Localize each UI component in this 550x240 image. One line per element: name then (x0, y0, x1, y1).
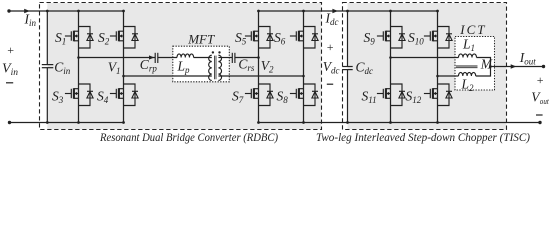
wire S9/S11 mid to L1 (391, 57, 459, 59)
transistor S5 (MOSFET with body diode) (245, 27, 273, 49)
transistor S9 (MOSFET with body diode) (377, 27, 405, 49)
polarity dot primary (212, 51, 214, 53)
transistor S3 (MOSFET with body diode) (65, 84, 93, 106)
junction S9/S11 mid (389, 56, 392, 59)
transistor S1 (MOSFET with body diode) (65, 27, 93, 49)
junction S11 leg bottom rail (389, 121, 392, 124)
junction node V1 (77, 56, 80, 59)
transformer MFT primary winding (209, 55, 212, 80)
junction S1 leg top rail (77, 10, 80, 13)
TISC shaded region (348, 3, 507, 130)
wire vertical leg S5/S7 (258, 11, 260, 123)
wire vertical leg S2/S4 (123, 11, 125, 123)
capacitor Crs (232, 53, 235, 63)
svg-text:M: M (480, 56, 493, 71)
transistor S7 (MOSFET with body diode) (245, 84, 273, 106)
terminal dot output top (542, 65, 545, 68)
transformer MFT secondary winding (218, 55, 221, 80)
junction S8 leg bottom rail (302, 121, 305, 124)
current arrow Iout (511, 64, 517, 69)
RDBC dashed boundary box (40, 3, 322, 130)
wire primary return (S2/S4 mid to transformer) (124, 75, 212, 77)
junction S9 leg top rail (389, 10, 392, 13)
current arrow on primary wire (149, 55, 154, 59)
junction Cin top (46, 10, 49, 13)
wire vertical leg S10/S12 (437, 11, 439, 123)
svg-text:+: + (6, 43, 14, 57)
ICT coupling core bars (456, 66, 478, 68)
svg-text:Two-leg Interleaved Step-down: Two-leg Interleaved Step-down Chopper (T… (316, 132, 530, 144)
capacitor Crp (155, 53, 158, 63)
junction Cdc bottom (346, 121, 349, 124)
transformer core (214, 56, 216, 80)
inductor L2 (459, 72, 476, 76)
wire L1 to output junction (477, 58, 491, 67)
junction S4 leg bottom rail (122, 121, 125, 124)
wire node V1 to Crp (79, 57, 156, 59)
RDBC shaded region (47, 3, 321, 130)
junction S10 leg top rail (436, 10, 439, 13)
junction S2 leg top rail (122, 10, 125, 13)
junction S2/S4 mid (122, 75, 125, 78)
wire S10/S12 mid to L2 (438, 75, 459, 77)
transistor S6 (MOSFET with body diode) (290, 27, 318, 49)
svg-text:out: out (540, 97, 550, 106)
transistor S10 (MOSFET with body diode) (424, 27, 452, 49)
svg-text:+: + (536, 73, 544, 87)
terminal dot input bottom (8, 121, 11, 124)
junction S6/S8 mid (302, 75, 305, 78)
wire output (491, 66, 544, 68)
wire top rail (DC link side) (259, 10, 438, 12)
transistor S4 (MOSFET with body diode) (110, 84, 138, 106)
wire secondary return (transformer to S6/S8 mid) (218, 75, 303, 77)
svg-text:+: + (326, 40, 334, 54)
wire vertical leg S6/S8 (303, 11, 305, 123)
junction node V2 (257, 56, 260, 59)
transistor S8 (MOSFET with body diode) (290, 84, 318, 106)
wire bottom rail (input side) (10, 122, 124, 124)
capacitor Cin (42, 11, 54, 123)
transistor S11 (MOSFET with body diode) (377, 84, 405, 106)
terminal dot input top (7, 9, 10, 12)
current arrow Iin (24, 9, 30, 14)
label - (Vin) (6, 82, 13, 84)
junction Cin bottom (46, 121, 49, 124)
inductor Lp (177, 54, 194, 58)
label - (Vdc) (327, 83, 333, 85)
polarity dot secondary (218, 51, 220, 53)
svg-text:MFT: MFT (187, 32, 215, 47)
transistor S2 (MOSFET with body diode) (110, 27, 138, 49)
transistor S12 (MOSFET with body diode) (424, 84, 452, 106)
MFT dotted box (173, 46, 230, 82)
wire bottom rail (DC link / output side) (259, 122, 541, 124)
wire transformer to Crs (218, 57, 232, 59)
wire vertical leg S9/S11 (390, 11, 392, 123)
label - (Vout) (536, 114, 543, 116)
junction S7 leg bottom rail (257, 121, 260, 124)
wire vertical leg S1/S3 (78, 11, 80, 123)
current arrow Idc (332, 9, 338, 14)
wire top rail (input side) (9, 10, 124, 12)
inductor L1 (459, 54, 477, 58)
capacitor Cdc (342, 11, 352, 123)
junction S10/S12 mid (436, 75, 439, 78)
wire Lp to transformer (194, 57, 212, 59)
junction S3 leg bottom rail (77, 121, 80, 124)
junction S6 leg top rail (302, 10, 305, 13)
wire Crs to node V2 (235, 57, 259, 59)
ICT dotted box (455, 37, 495, 91)
svg-text:Resonant Dual Bridge Converter: Resonant Dual Bridge Converter (RDBC) (99, 132, 278, 144)
junction output node (489, 65, 492, 68)
junction S12 leg bottom rail (436, 121, 439, 124)
terminal dot output bottom (538, 121, 541, 124)
wire Crp to Lp (158, 57, 177, 59)
TISC dashed boundary box (343, 3, 507, 130)
svg-text:ICT: ICT (459, 22, 486, 37)
junction S5 leg top rail (257, 10, 260, 13)
wire L2 to output junction (476, 67, 491, 77)
junction Cdc top (346, 10, 349, 13)
